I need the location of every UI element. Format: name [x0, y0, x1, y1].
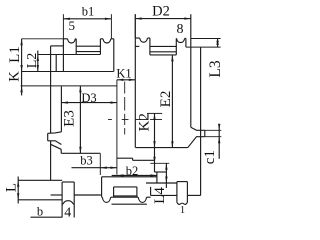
- belt piece 1 wave: [177, 202, 188, 204]
- dimension b1 line: [63, 18, 111, 20]
- ledge y=172.0: [155, 171, 167, 173]
- horizontal centerline: [108, 119, 112, 121]
- left hub flange top: [51, 45, 64, 47]
- left neck bottom: [48, 141, 62, 145]
- line y=195.0 segment left: [51, 194, 63, 196]
- left pulley left edge: [62, 39, 64, 72]
- bottom groove 2 (inverted scallop): [138, 197, 146, 202]
- dimension D2 left extension: [134, 14, 136, 38]
- belt piece 4 wave: [62, 201, 74, 205]
- bottom profile bottom edge with grooves: [101, 196, 104, 198]
- extension line y=38.5 right: [191, 38, 221, 40]
- dimension K arrow: [20, 86, 22, 93]
- svg-text:b2: b2: [126, 164, 139, 178]
- dimension L3 line: [217, 39, 219, 48]
- left hub inner edge: [60, 87, 62, 132]
- ledge y=183.0: [146, 182, 177, 184]
- left neck top: [48, 132, 62, 134]
- svg-text:8: 8: [177, 22, 184, 37]
- bottom slot inner line: [114, 195, 137, 197]
- dimension c1 line: [218, 125, 220, 159]
- bottom edge y=195.4 right segment: [187, 194, 200, 196]
- left hub outer edge lower: [50, 141, 52, 181]
- line y=199.8: [18, 199, 62, 201]
- svg-text:4: 4: [64, 205, 71, 219]
- left pulley slot inner line: [76, 51, 100, 53]
- dimension b1 right extension: [110, 14, 112, 39]
- svg-text:L3: L3: [207, 60, 224, 77]
- dimension b1 left extension: [62, 14, 64, 39]
- dimension L1 top extension: [22, 38, 64, 40]
- dimension K bottom extension: [21, 85, 117, 87]
- jog line y=160.3: [133, 159, 155, 161]
- dimension b3 line with tail: [72, 167, 117, 169]
- line y=180.3: [18, 179, 62, 181]
- bottom slot wall left: [113, 187, 115, 197]
- left hub flank diagonal: [51, 144, 62, 149]
- bottom profile top edge: [102, 176, 157, 178]
- c1 top extension: [205, 129, 222, 131]
- dimension L1 line: [21, 39, 23, 96]
- floor line y=153.3: [61, 152, 100, 154]
- bottom groove 1 (inverted scallop): [102, 197, 110, 202]
- dimension E3 line: [79, 86, 81, 153]
- c1 bottom extension: [205, 136, 222, 138]
- line y=47.1 right: [186, 46, 221, 48]
- bottom outer diameter line: [112, 203, 147, 205]
- left pulley groove 2: [100, 38, 103, 40]
- svg-text:L1: L1: [7, 46, 23, 63]
- right pulley groove2 right wall: [185, 38, 187, 47]
- long line x=190.8 (D2 ext / outer edge): [190, 14, 192, 127]
- right pulley rim line y=54.9: [150, 54, 176, 56]
- dimension b2 line with tail: [112, 175, 157, 177]
- svg-text:E2: E2: [158, 91, 174, 108]
- left pulley slot wall right: [99, 39, 101, 55]
- left hub lower edge: [60, 149, 62, 153]
- bottom profile left edge: [101, 177, 103, 197]
- right pulley left edge: [134, 14, 136, 147]
- dimension D2 line: [135, 18, 191, 20]
- left pulley right edge: [113, 39, 115, 72]
- left neck end: [47, 133, 49, 141]
- right pulley groove 2: [175, 37, 177, 39]
- jog step: [132, 158, 134, 160]
- dimension K2 top extension: [147, 112, 162, 114]
- left hub line x=56.2: [55, 55, 57, 72]
- bottom edge y=195.4 left segment: [151, 194, 177, 196]
- svg-text:b: b: [37, 204, 43, 218]
- dimension L line: [17, 177, 19, 204]
- extension line y=163.3: [150, 162, 169, 164]
- outline x=154.5 below K2 arrow: [154, 163, 156, 172]
- right bore line x=200.6: [200, 47, 202, 195]
- dimension L2 line: [37, 51, 39, 72]
- svg-text:K1: K1: [116, 66, 131, 80]
- svg-text:D2: D2: [152, 3, 170, 19]
- right neck upper diagonal: [191, 127, 205, 130]
- dimension K2 line: [154, 113, 156, 163]
- dimension E2 line: [171, 55, 173, 148]
- right pulley groove 1: [140, 38, 148, 42]
- svg-text:b3: b3: [80, 154, 93, 168]
- left pulley slot wall left: [75, 39, 77, 55]
- line y=195.0 segment right: [74, 194, 101, 196]
- svg-text:K2: K2: [137, 113, 153, 131]
- svg-text:E3: E3: [62, 110, 78, 127]
- svg-text:5: 5: [69, 18, 76, 33]
- dimension K1 line: [117, 79, 135, 81]
- shoulder x=156.9: [156, 172, 158, 183]
- jog line y=158.2: [117, 157, 133, 159]
- right neck bottom: [188, 137, 205, 148]
- left pulley rim line y=54.5: [38, 54, 101, 56]
- baseline y=147.6: [135, 147, 187, 149]
- svg-text:b1: b1: [82, 5, 95, 19]
- long extension x=116.9: [116, 80, 118, 175]
- floor corner vertical x=100.3: [99, 153, 101, 175]
- svg-text:K: K: [6, 71, 22, 82]
- bottom slot wall right: [136, 187, 138, 197]
- left pulley top edge with grooves: [63, 38, 67, 40]
- dimension D3 line: [61, 102, 117, 104]
- belt piece 1 outline: [177, 181, 187, 183]
- svg-text:c1: c1: [202, 150, 218, 164]
- right neck end: [204, 130, 206, 136]
- svg-text:1: 1: [180, 205, 185, 216]
- svg-text:D3: D3: [81, 91, 96, 105]
- left pulley groove 1: [67, 39, 75, 43]
- belt piece 4 outline: [62, 181, 74, 183]
- right pulley top edge: [135, 37, 139, 39]
- right pulley slot wall right: [175, 38, 177, 55]
- svg-text:L2: L2: [25, 53, 40, 69]
- svg-text:L: L: [4, 183, 20, 192]
- bottom right slot wall: [150, 187, 152, 196]
- right pulley slot wall left: [149, 38, 151, 55]
- left pulley slot floor: [76, 45, 100, 47]
- vertical centerline with cross: [124, 82, 126, 94]
- right pulley slot inner line: [150, 51, 176, 53]
- bottom slot top line: [114, 186, 137, 188]
- dimension L4 line: [165, 163, 167, 188]
- shared extension line y=71.5: [21, 71, 114, 73]
- left hub outer edge upper: [50, 46, 52, 133]
- right pulley slot floor: [135, 45, 139, 47]
